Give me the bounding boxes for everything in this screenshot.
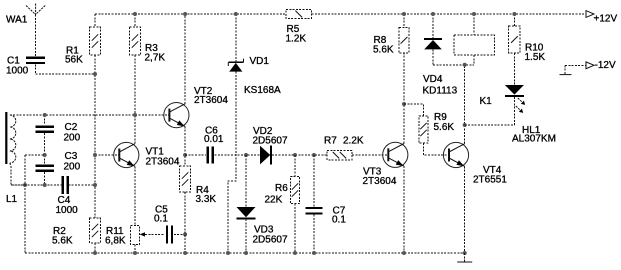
svg-text:R7: R7	[324, 135, 337, 146]
wire R7 to VT3	[352, 154, 388, 156]
svg-text:-12V: -12V	[595, 60, 616, 71]
relay K1	[454, 12, 494, 107]
wire tank top	[10, 114, 170, 116]
svg-text:0.01: 0.01	[204, 134, 224, 145]
resistor R6	[265, 153, 300, 253]
wire VT3 emitter	[403, 166, 405, 253]
svg-text:1000: 1000	[56, 205, 79, 216]
wire R3 to node	[134, 55, 136, 115]
+12V terminal	[586, 11, 617, 25]
svg-text:2D5607: 2D5607	[253, 234, 288, 245]
svg-text:K1: K1	[480, 96, 493, 107]
svg-text:C2: C2	[65, 122, 78, 133]
node L1 bottom	[23, 183, 27, 187]
svg-text:200: 200	[64, 132, 81, 143]
svg-text:5.6K: 5.6K	[434, 122, 455, 133]
svg-text:6,8K: 6,8K	[105, 235, 126, 246]
wire +12V rail left	[95, 13, 286, 15]
svg-text:2,7K: 2,7K	[145, 52, 166, 63]
-12V terminal	[560, 60, 616, 75]
wire VT2 collector	[183, 12, 187, 104]
diode VD2	[253, 126, 288, 165]
svg-text:2T6551: 2T6551	[473, 174, 507, 185]
svg-text:5.6K: 5.6K	[373, 44, 394, 55]
resistor R8	[373, 12, 409, 55]
diode VD4	[423, 12, 458, 96]
wire left ground drop	[24, 155, 26, 253]
wire VT3 collector	[403, 53, 405, 144]
svg-text:22K: 22K	[265, 194, 283, 205]
svg-text:1.5K: 1.5K	[525, 52, 546, 63]
led HL1	[505, 85, 556, 144]
wire VT4 collector	[464, 65, 466, 144]
svg-text:1000: 1000	[6, 65, 29, 76]
wire VT1 base	[93, 153, 119, 157]
ground	[457, 253, 472, 262]
transistor VT1	[114, 142, 180, 167]
wire ground rail	[25, 252, 465, 254]
svg-text:3.3K: 3.3K	[196, 194, 217, 205]
wire VD4-relay-VT4	[433, 63, 474, 67]
resistor R11 trimmer	[105, 226, 165, 254]
wire C5 to R4 line	[174, 232, 187, 236]
wire +12V rail right	[312, 13, 587, 15]
wire VT1 collector	[134, 115, 136, 144]
capacitor C1	[6, 55, 45, 76]
wire tap stub	[25, 154, 45, 156]
wire tank bottom	[11, 184, 95, 186]
transistor VT3	[363, 142, 408, 187]
svg-text:200: 200	[64, 161, 81, 172]
svg-text:AL307KM: AL307KM	[512, 133, 556, 144]
wire VD2 to R7	[272, 154, 327, 156]
wire LED to VT4	[465, 124, 515, 126]
antenna WA1	[6, 4, 45, 26]
node C1-R1	[93, 72, 97, 76]
svg-text:0.1: 0.1	[154, 213, 168, 224]
capacitor C6	[185, 125, 224, 163]
svg-text:VD4: VD4	[423, 74, 443, 85]
resistor R1	[65, 14, 100, 65]
svg-text:56K: 56K	[65, 54, 83, 65]
resistor R9	[404, 104, 454, 155]
resistor R5	[286, 10, 312, 45]
node C2 top	[43, 113, 47, 117]
svg-text:1.2K: 1.2K	[286, 33, 307, 44]
svg-text:VD1: VD1	[250, 56, 270, 67]
capacitor C5	[154, 204, 172, 243]
wire C6 to VD2	[215, 154, 261, 156]
transistor VT4	[443, 142, 507, 185]
svg-text:KS168A: KS168A	[244, 85, 281, 96]
wire L1 bottom lead	[10, 163, 25, 185]
svg-text:5.6K: 5.6K	[52, 235, 73, 246]
node VT2 emitter	[183, 153, 187, 157]
svg-text:2T3604: 2T3604	[363, 176, 397, 187]
node VT1 collector	[133, 113, 137, 117]
zener VD1	[228, 12, 281, 96]
resistor R2	[52, 218, 100, 253]
svg-text:+12V: +12V	[594, 14, 618, 25]
wire C1 to node	[36, 64, 95, 74]
node VD3 top	[244, 153, 248, 157]
resistor R10	[509, 12, 546, 85]
capacitor C3	[35, 151, 80, 185]
inductor L1	[5, 112, 17, 205]
resistor R4	[180, 166, 217, 253]
node C3 bottom	[43, 183, 47, 187]
svg-text:0.1: 0.1	[332, 215, 346, 226]
resistor R7	[324, 135, 364, 160]
capacitor C2	[35, 115, 80, 155]
svg-text:WA1: WA1	[6, 14, 28, 25]
wire antenna to C1	[35, 15, 37, 57]
capacitor C4	[56, 176, 79, 216]
diode VD3	[237, 155, 288, 253]
svg-text:2.2K: 2.2K	[343, 135, 364, 146]
svg-text:KD1113: KD1113	[423, 85, 458, 96]
svg-text:C3: C3	[65, 151, 78, 162]
transistor VT2	[164, 86, 229, 128]
wire R1 to R2	[94, 55, 96, 218]
svg-text:L1: L1	[6, 194, 18, 205]
resistor R3	[130, 12, 166, 63]
wire VT1 emitter	[134, 166, 136, 225]
svg-text:R6: R6	[275, 183, 288, 194]
wire VT4 emitter	[464, 166, 466, 253]
capacitor C7	[305, 153, 346, 253]
svg-text:2T3604: 2T3604	[146, 156, 180, 167]
node tank-bias	[93, 183, 97, 187]
node C2-C3	[43, 153, 47, 157]
node rail junctions	[93, 251, 467, 255]
node LED tap	[463, 123, 467, 127]
wire VT2 emitter	[184, 126, 186, 166]
svg-text:2D5607: 2D5607	[253, 135, 288, 146]
wire VD1 to ground	[228, 72, 236, 253]
svg-text:2T3604: 2T3604	[194, 95, 228, 106]
node R9 tap	[402, 102, 406, 106]
